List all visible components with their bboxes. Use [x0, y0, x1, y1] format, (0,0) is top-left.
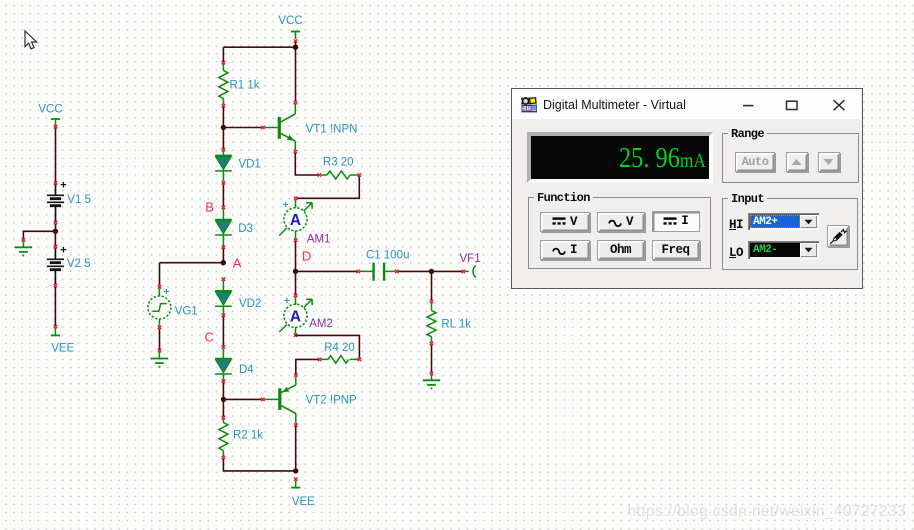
ground (VG1) — [151, 349, 168, 368]
svg-text:VT2 !PNP: VT2 !PNP — [306, 395, 357, 407]
battery V2 — [47, 245, 64, 287]
wire: VT1 emitter to R3 — [295, 153, 318, 175]
ammeter AM2 — [279, 294, 312, 337]
wire: VG1 to ground — [159, 329, 161, 350]
wire: D3 to node A — [222, 249, 224, 263]
wire: output node down to RL — [431, 271, 433, 300]
svg-text:A: A — [233, 255, 242, 270]
wire: R1 to base node to VD1 — [222, 107, 224, 148]
wire: top rail VCC to R1/VT1 — [223, 46, 295, 48]
resistor R3 — [318, 171, 361, 179]
svg-text:VEE: VEE — [292, 496, 315, 508]
svg-text:AM2: AM2 — [309, 318, 333, 330]
wire: VD1 to D3 — [222, 181, 225, 219]
svg-text:D3: D3 — [238, 223, 253, 235]
svg-text:D4: D4 — [239, 364, 254, 376]
wire: output node to VF1 — [432, 270, 462, 272]
svg-text:VCC: VCC — [278, 15, 302, 27]
svg-text:+: + — [283, 200, 289, 211]
svg-text:R2 1k: R2 1k — [233, 429, 263, 441]
wire: D4 to VT2 base node — [222, 383, 224, 417]
svg-text:V2 5: V2 5 — [67, 258, 91, 270]
wire: top rail down to R1 — [222, 47, 224, 61]
transistor VT1 NPN — [261, 101, 297, 153]
junction: supply mid node — [53, 229, 58, 234]
ground (RL) — [423, 372, 440, 390]
junction: VT2 base node — [221, 397, 226, 402]
svg-text:+: + — [164, 287, 170, 298]
svg-text:+: + — [284, 296, 290, 307]
svg-text:AM1: AM1 — [307, 234, 331, 246]
svg-text:VG1: VG1 — [175, 306, 198, 318]
power flag VEE (center) — [291, 477, 300, 487]
generator VG1 — [148, 285, 171, 329]
wire: base node to VT1 base — [223, 127, 261, 129]
dialog: Digital Multimeter - Virtual — [511, 88, 863, 289]
power flag VCC (center) — [291, 32, 300, 43]
junction: VCC rail node — [293, 45, 298, 50]
wire: mid node to ground — [23, 231, 55, 238]
svg-text:VT1 !NPN: VT1 !NPN — [306, 124, 358, 136]
wire: node A to VD2 — [222, 278, 225, 291]
terminal VF1 — [462, 265, 476, 277]
resistor R1 — [219, 61, 228, 107]
power flag VEE (left) — [51, 325, 60, 336]
diode VD2 — [215, 291, 232, 317]
wire: VCC to V1 — [55, 128, 57, 181]
svg-text:R1 1k: R1 1k — [230, 80, 260, 92]
wire: AM1 to node D — [295, 242, 297, 272]
diode D3 — [215, 220, 232, 250]
wire: node A to VG1 — [160, 263, 224, 286]
wire: node D down to AM2 — [295, 271, 297, 294]
Range group — [722, 133, 859, 184]
svg-text:VCC: VCC — [38, 103, 62, 115]
wire: V2 to VEE — [54, 287, 56, 325]
wire: R2 to VEE rail — [223, 459, 295, 471]
svg-text:+: + — [60, 180, 66, 192]
wire: AM2 to R4 — [296, 335, 360, 357]
resistor RL — [427, 300, 436, 345]
wire: C1 to RL node — [398, 270, 431, 272]
junction: VEE rail node — [293, 468, 298, 473]
capacitor C1 — [357, 263, 399, 281]
wire: V1 to mid node — [55, 224, 57, 231]
ground (supplies) — [15, 238, 32, 256]
resistor R2 — [219, 416, 228, 459]
power flag VCC (left) — [51, 119, 60, 128]
resistor R4 — [318, 356, 361, 364]
wire: base node to VT2 base — [224, 398, 262, 400]
LCD display — [527, 132, 713, 183]
wire: VD1 top — [222, 148, 225, 181]
svg-text:C1 100u: C1 100u — [366, 249, 409, 261]
svg-text:VF1: VF1 — [460, 253, 481, 265]
wire: R4 to VT2 emitter — [296, 359, 318, 373]
junction: VT1 base node — [221, 125, 226, 130]
svg-text:VEE: VEE — [51, 342, 74, 354]
svg-text:R3 20: R3 20 — [323, 157, 354, 169]
Function group — [528, 197, 711, 269]
svg-text:VD2: VD2 — [239, 298, 261, 310]
junction: node A — [221, 260, 226, 265]
svg-text:C: C — [205, 330, 214, 345]
svg-text:B: B — [205, 200, 214, 215]
wire: VCC stub down / collector feed — [295, 42, 297, 102]
junction: output node — [429, 269, 434, 274]
svg-text:V1 5: V1 5 — [67, 194, 91, 206]
svg-text:D: D — [302, 248, 311, 263]
wire: mid node to V2 — [54, 231, 56, 245]
junction: node D — [293, 269, 298, 274]
transistor VT2 PNP — [261, 373, 297, 427]
mouse cursor — [24, 30, 40, 52]
Input group — [722, 198, 858, 270]
svg-text:RL 1k: RL 1k — [441, 319, 471, 331]
svg-text:+: + — [60, 244, 66, 256]
svg-text:VD1: VD1 — [239, 159, 261, 171]
diode D4 — [215, 345, 232, 383]
wire: VT2 collector to VEE rail — [295, 427, 297, 471]
ammeter AM1 — [279, 197, 312, 242]
wire: R3 to AM1 — [297, 176, 359, 198]
battery V1 — [47, 181, 64, 224]
wire: RL to ground — [431, 345, 433, 372]
svg-text:R4 20: R4 20 — [324, 342, 355, 354]
wire: node D to C1 — [296, 270, 357, 272]
wire: VD2 to D4 — [222, 317, 224, 346]
diode VD1 — [215, 155, 232, 171]
